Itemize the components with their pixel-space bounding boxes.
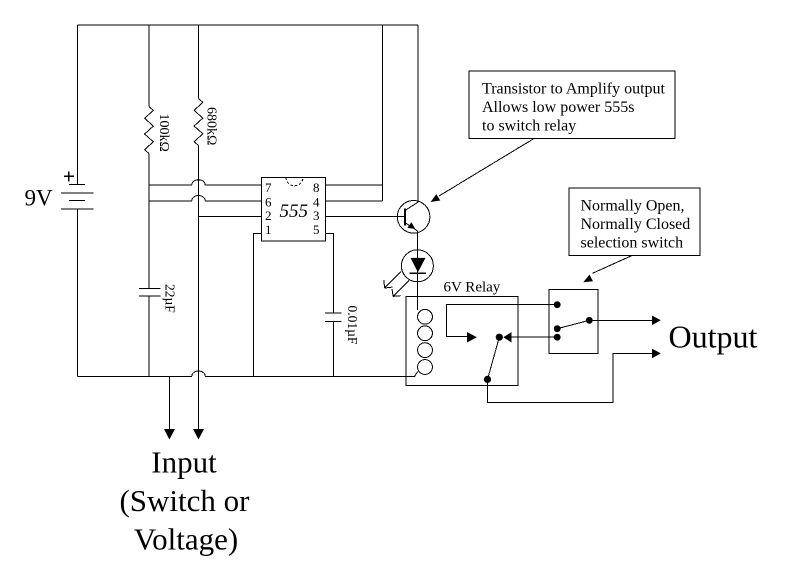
svg-text:to switch relay: to switch relay bbox=[482, 118, 576, 135]
svg-text:1: 1 bbox=[265, 222, 272, 237]
svg-text:Normally Closed: Normally Closed bbox=[581, 216, 691, 233]
svg-text:selection switch: selection switch bbox=[581, 235, 684, 252]
svg-text:Input: Input bbox=[151, 445, 217, 480]
svg-text:Normally Open,: Normally Open, bbox=[581, 198, 685, 215]
svg-text:2: 2 bbox=[265, 208, 272, 223]
svg-text:Voltage): Voltage) bbox=[134, 522, 238, 557]
svg-text:680kΩ: 680kΩ bbox=[204, 107, 219, 145]
svg-text:0.01µF: 0.01µF bbox=[345, 306, 360, 345]
svg-text:Output: Output bbox=[669, 319, 758, 355]
svg-text:Transistor to Amplify output: Transistor to Amplify output bbox=[482, 81, 666, 98]
svg-text:6V Relay: 6V Relay bbox=[444, 280, 501, 296]
svg-text:7: 7 bbox=[265, 180, 272, 195]
svg-text:9V: 9V bbox=[25, 185, 54, 210]
svg-text:22µF: 22µF bbox=[163, 284, 178, 313]
svg-text:3: 3 bbox=[313, 208, 320, 223]
svg-text:Allows low power 555s: Allows low power 555s bbox=[482, 99, 634, 116]
svg-text:100kΩ: 100kΩ bbox=[156, 114, 171, 152]
svg-text:(Switch or: (Switch or bbox=[119, 483, 250, 518]
svg-text:555: 555 bbox=[280, 201, 309, 222]
svg-text:5: 5 bbox=[313, 222, 320, 237]
svg-text:8: 8 bbox=[313, 180, 320, 195]
